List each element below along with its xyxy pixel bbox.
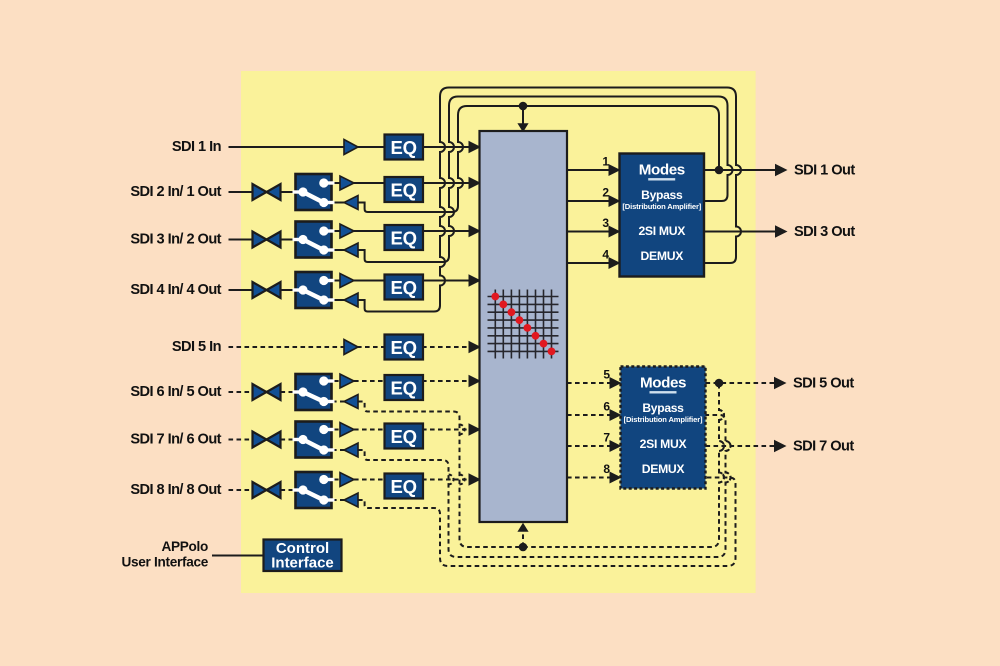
svg-text:EQ: EQ (391, 426, 417, 447)
wire SDI 7 Out (706, 445, 776, 447)
wire SDI 6 In/ 5 Out to loop-through valve (229, 391, 253, 393)
wire loop: output 4 feedback to SDI4 return (via top) (358, 88, 741, 312)
wire matrix output 3 to modes (567, 231, 609, 233)
loop-through valve (bowtie) row 3 (253, 232, 281, 248)
svg-text:APPolo: APPolo (161, 539, 208, 554)
wire matrix output 7 to modes (567, 445, 610, 447)
svg-text:Modes: Modes (639, 161, 685, 178)
svg-text:Interface: Interface (271, 554, 334, 571)
wire amp to EQ row 5 (357, 346, 387, 348)
svg-text:EQ: EQ (391, 228, 417, 249)
arrow SDI 5 Out (774, 377, 787, 389)
wire relay return stub row 4 (332, 299, 345, 301)
amplifier (return) row 6 (344, 395, 358, 409)
svg-text:[Distribution Amplifier]: [Distribution Amplifier] (622, 202, 701, 211)
wire relay to amp row 6 (334, 380, 341, 382)
svg-text:DEMUX: DEMUX (641, 249, 685, 263)
wire EQ to matrix row 1 (422, 146, 470, 148)
wire SDI 7 In/ 6 Out to loop-through valve (229, 439, 253, 441)
svg-text:SDI 2 In/ 1 Out: SDI 2 In/ 1 Out (130, 184, 221, 200)
svg-text:Modes: Modes (640, 374, 686, 391)
svg-text:EQ: EQ (391, 476, 417, 497)
svg-text:SDI 5 Out: SDI 5 Out (793, 376, 854, 392)
amplifier row 1 (344, 140, 358, 155)
amplifier row 5 (344, 340, 358, 355)
svg-text:SDI 7 Out: SDI 7 Out (793, 439, 854, 455)
wire amp to EQ row 7 (354, 429, 387, 431)
wire amp to EQ row 4 (354, 280, 387, 282)
relay switch row 3 (293, 222, 335, 258)
wire loop: output 8 feedback to SDI8 return (via bottom) (358, 478, 736, 567)
svg-text:SDI 6 In/ 5 Out: SDI 6 In/ 5 Out (130, 384, 221, 400)
svg-text:7: 7 (603, 431, 610, 445)
junction dot bottom feedback (519, 543, 528, 552)
EQ box row 3 (385, 225, 424, 250)
svg-text:SDI 7 In/ 6 Out: SDI 7 In/ 6 Out (130, 432, 221, 448)
svg-text:6: 6 (603, 400, 610, 414)
arrow SDI 3 Out (775, 225, 788, 237)
svg-text:SDI 1 In: SDI 1 In (172, 139, 222, 155)
arrow into modes input 3 (609, 226, 621, 238)
matrix crosspoints (red) (491, 293, 555, 356)
arrow into modes input 1 (609, 164, 621, 176)
wire SDI 3 Out (704, 231, 776, 233)
wire valve to relay row 4 (281, 289, 295, 291)
wire valve to relay row 3 (281, 239, 295, 241)
EQ box row 2 (385, 177, 424, 202)
wire amp to EQ row 1 (357, 146, 387, 148)
arrow into modes input 7 (610, 440, 622, 452)
wire SDI 3 In/ 2 Out to loop-through valve (229, 239, 253, 241)
wire EQ to matrix row 4 (422, 280, 470, 282)
relay switch row 2 (293, 174, 335, 210)
wire SDI 8 In/ 8 Out to loop-through valve (229, 489, 253, 491)
wire valve to relay row 7 (281, 439, 295, 441)
control interface box (264, 540, 342, 572)
wire relay return stub row 7 (332, 449, 345, 451)
junction dot output 5 (715, 379, 724, 388)
wire EQ to matrix row 5 (422, 346, 470, 348)
wire amp to EQ row 3 (354, 230, 387, 232)
modes box U2 (outputs 1-4) (620, 154, 705, 277)
wire SDI 5 In input line (229, 346, 346, 348)
wire relay return stub row 2 (332, 202, 345, 204)
svg-text:SDI 3 Out: SDI 3 Out (794, 224, 855, 240)
wire relay to amp row 3 (334, 230, 341, 232)
wire branch to matrix bottom input (522, 530, 524, 547)
svg-text:2SI MUX: 2SI MUX (640, 437, 688, 451)
arrow into modes input 5 (610, 377, 622, 389)
svg-text:2: 2 (602, 186, 609, 200)
wire loop: output 5 feedback to SDI6 return (via bottom) (358, 383, 724, 547)
wire EQ to matrix row 8 (422, 479, 470, 481)
wire SDI 4 In/ 4 Out to loop-through valve (229, 289, 253, 291)
arrow into modes input 2 (609, 195, 621, 207)
wire loop: output 1 feedback to SDI2 return (via top) (358, 106, 719, 212)
amplifier (forward) row 6 (340, 374, 354, 388)
EQ box row 1 (385, 135, 424, 160)
svg-text:SDI 4 In/ 4 Out: SDI 4 In/ 4 Out (130, 282, 221, 298)
wire relay to amp row 4 (334, 280, 341, 282)
relay switch row 7 (293, 422, 335, 458)
wire matrix output 8 to modes (567, 477, 610, 479)
wire loop: output 6 feedback to SDI7 return (via bottom) (358, 415, 731, 557)
svg-text:2SI MUX: 2SI MUX (638, 224, 686, 238)
amplifier (return) row 2 (344, 196, 358, 210)
loop-through valve (bowtie) row 7 (253, 432, 281, 448)
wire SDI 2 In/ 1 Out to loop-through valve (229, 191, 253, 193)
arrow into matrix row 4 (469, 274, 482, 286)
junction dot output 1 (715, 166, 724, 175)
svg-text:4: 4 (602, 248, 609, 262)
arrow into matrix row 8 (469, 473, 482, 485)
amplifier (return) row 4 (344, 293, 358, 307)
wire matrix output 6 to modes (567, 414, 610, 416)
amplifier (return) row 3 (344, 243, 358, 257)
arrow into matrix row 5 (469, 341, 482, 353)
arrow into matrix top (517, 123, 528, 132)
arrow into modes input 6 (610, 409, 622, 421)
wire SDI 1 In input line (229, 146, 346, 148)
arrow into matrix row 2 (469, 177, 482, 189)
arrow into modes input 4 (609, 257, 621, 269)
wire branch to matrix top input (522, 106, 524, 125)
relay switch row 6 (293, 374, 335, 410)
loop-through valve (bowtie) row 6 (253, 384, 281, 400)
EQ box row 5 (385, 335, 424, 360)
svg-text:SDI 5 In: SDI 5 In (172, 339, 222, 355)
amplifier (forward) row 4 (340, 274, 354, 288)
svg-text:1: 1 (602, 155, 609, 169)
wire matrix output 1 to modes (567, 169, 609, 171)
arrow into modes input 8 (610, 472, 622, 484)
amplifier (forward) row 7 (340, 423, 354, 437)
svg-text:[Distribution Amplifier]: [Distribution Amplifier] (624, 415, 703, 424)
amplifier (return) row 7 (344, 443, 358, 457)
svg-text:EQ: EQ (391, 277, 417, 298)
wire SDI 5 Out (706, 382, 776, 384)
arrow SDI 7 Out (774, 440, 787, 452)
svg-text:EQ: EQ (391, 180, 417, 201)
loop-through valve (bowtie) row 4 (253, 282, 281, 298)
arrow into matrix bottom (517, 523, 528, 532)
svg-text:5: 5 (603, 368, 610, 382)
wire EQ to matrix row 2 (422, 182, 470, 184)
modes box U3 (outputs 5-8) (621, 367, 706, 489)
loop-through valve (bowtie) row 8 (253, 482, 281, 498)
wire relay to amp row 7 (334, 429, 341, 431)
svg-text:3: 3 (602, 216, 609, 230)
EQ box row 6 (385, 375, 424, 400)
wire matrix output 4 to modes (567, 262, 609, 264)
wire matrix output 2 to modes (567, 200, 609, 202)
svg-text:Bypass: Bypass (642, 401, 684, 415)
wire amp to EQ row 2 (354, 182, 387, 184)
amplifier (forward) row 3 (340, 224, 354, 238)
EQ box row 7 (385, 424, 424, 449)
wire amp to EQ row 6 (354, 380, 387, 382)
arrow into matrix row 3 (469, 225, 482, 237)
svg-text:SDI 3 In/ 2 Out: SDI 3 In/ 2 Out (130, 232, 221, 248)
wire valve to relay row 8 (281, 489, 295, 491)
wire amp to EQ row 8 (354, 479, 387, 481)
relay switch row 8 (293, 472, 335, 508)
wire valve to relay row 6 (281, 391, 295, 393)
junction dot top feedback (519, 102, 528, 111)
wire relay return stub row 8 (332, 499, 345, 501)
EQ box row 8 (385, 474, 424, 499)
EQ box row 4 (385, 275, 424, 300)
amplifier (forward) row 8 (340, 473, 354, 487)
wire EQ to matrix row 7 (422, 429, 470, 431)
svg-text:EQ: EQ (391, 378, 417, 399)
arrow SDI 1 Out (775, 164, 788, 176)
crossbar matrix U1 (480, 131, 568, 522)
wire relay to amp row 8 (334, 479, 341, 481)
svg-text:User Interface: User Interface (122, 555, 209, 570)
wire relay return stub row 6 (332, 401, 345, 403)
arrow into matrix row 7 (469, 423, 482, 435)
wire loop: output 2 feedback to SDI3 return (via top) (358, 97, 733, 263)
arrow into matrix row 1 (469, 141, 482, 153)
wire EQ to matrix row 6 (422, 380, 470, 382)
loop-through valve (bowtie) row 2 (253, 184, 281, 200)
amplifier (return) row 8 (344, 493, 358, 507)
matrix crosspoint grid (488, 290, 559, 359)
relay switch row 4 (293, 272, 335, 308)
arrow into matrix row 6 (469, 375, 482, 387)
wire relay to amp row 2 (334, 182, 341, 184)
svg-text:SDI 8 In/ 8 Out: SDI 8 In/ 8 Out (130, 482, 221, 498)
wire valve to relay row 2 (281, 191, 295, 193)
svg-text:DEMUX: DEMUX (642, 462, 686, 476)
wire relay return stub row 3 (332, 249, 345, 251)
wire matrix output 5 to modes (567, 382, 610, 384)
svg-text:EQ: EQ (391, 137, 417, 158)
svg-text:Bypass: Bypass (641, 188, 683, 202)
yellow diagram panel (241, 71, 756, 593)
svg-text:8: 8 (603, 462, 610, 476)
svg-text:SDI 1 Out: SDI 1 Out (794, 163, 855, 179)
wire EQ to matrix row 3 (422, 230, 470, 232)
amplifier (forward) row 2 (340, 176, 354, 190)
wire SDI 1 Out (704, 169, 776, 171)
svg-text:EQ: EQ (391, 337, 417, 358)
wire APPolo to control interface (212, 555, 264, 557)
